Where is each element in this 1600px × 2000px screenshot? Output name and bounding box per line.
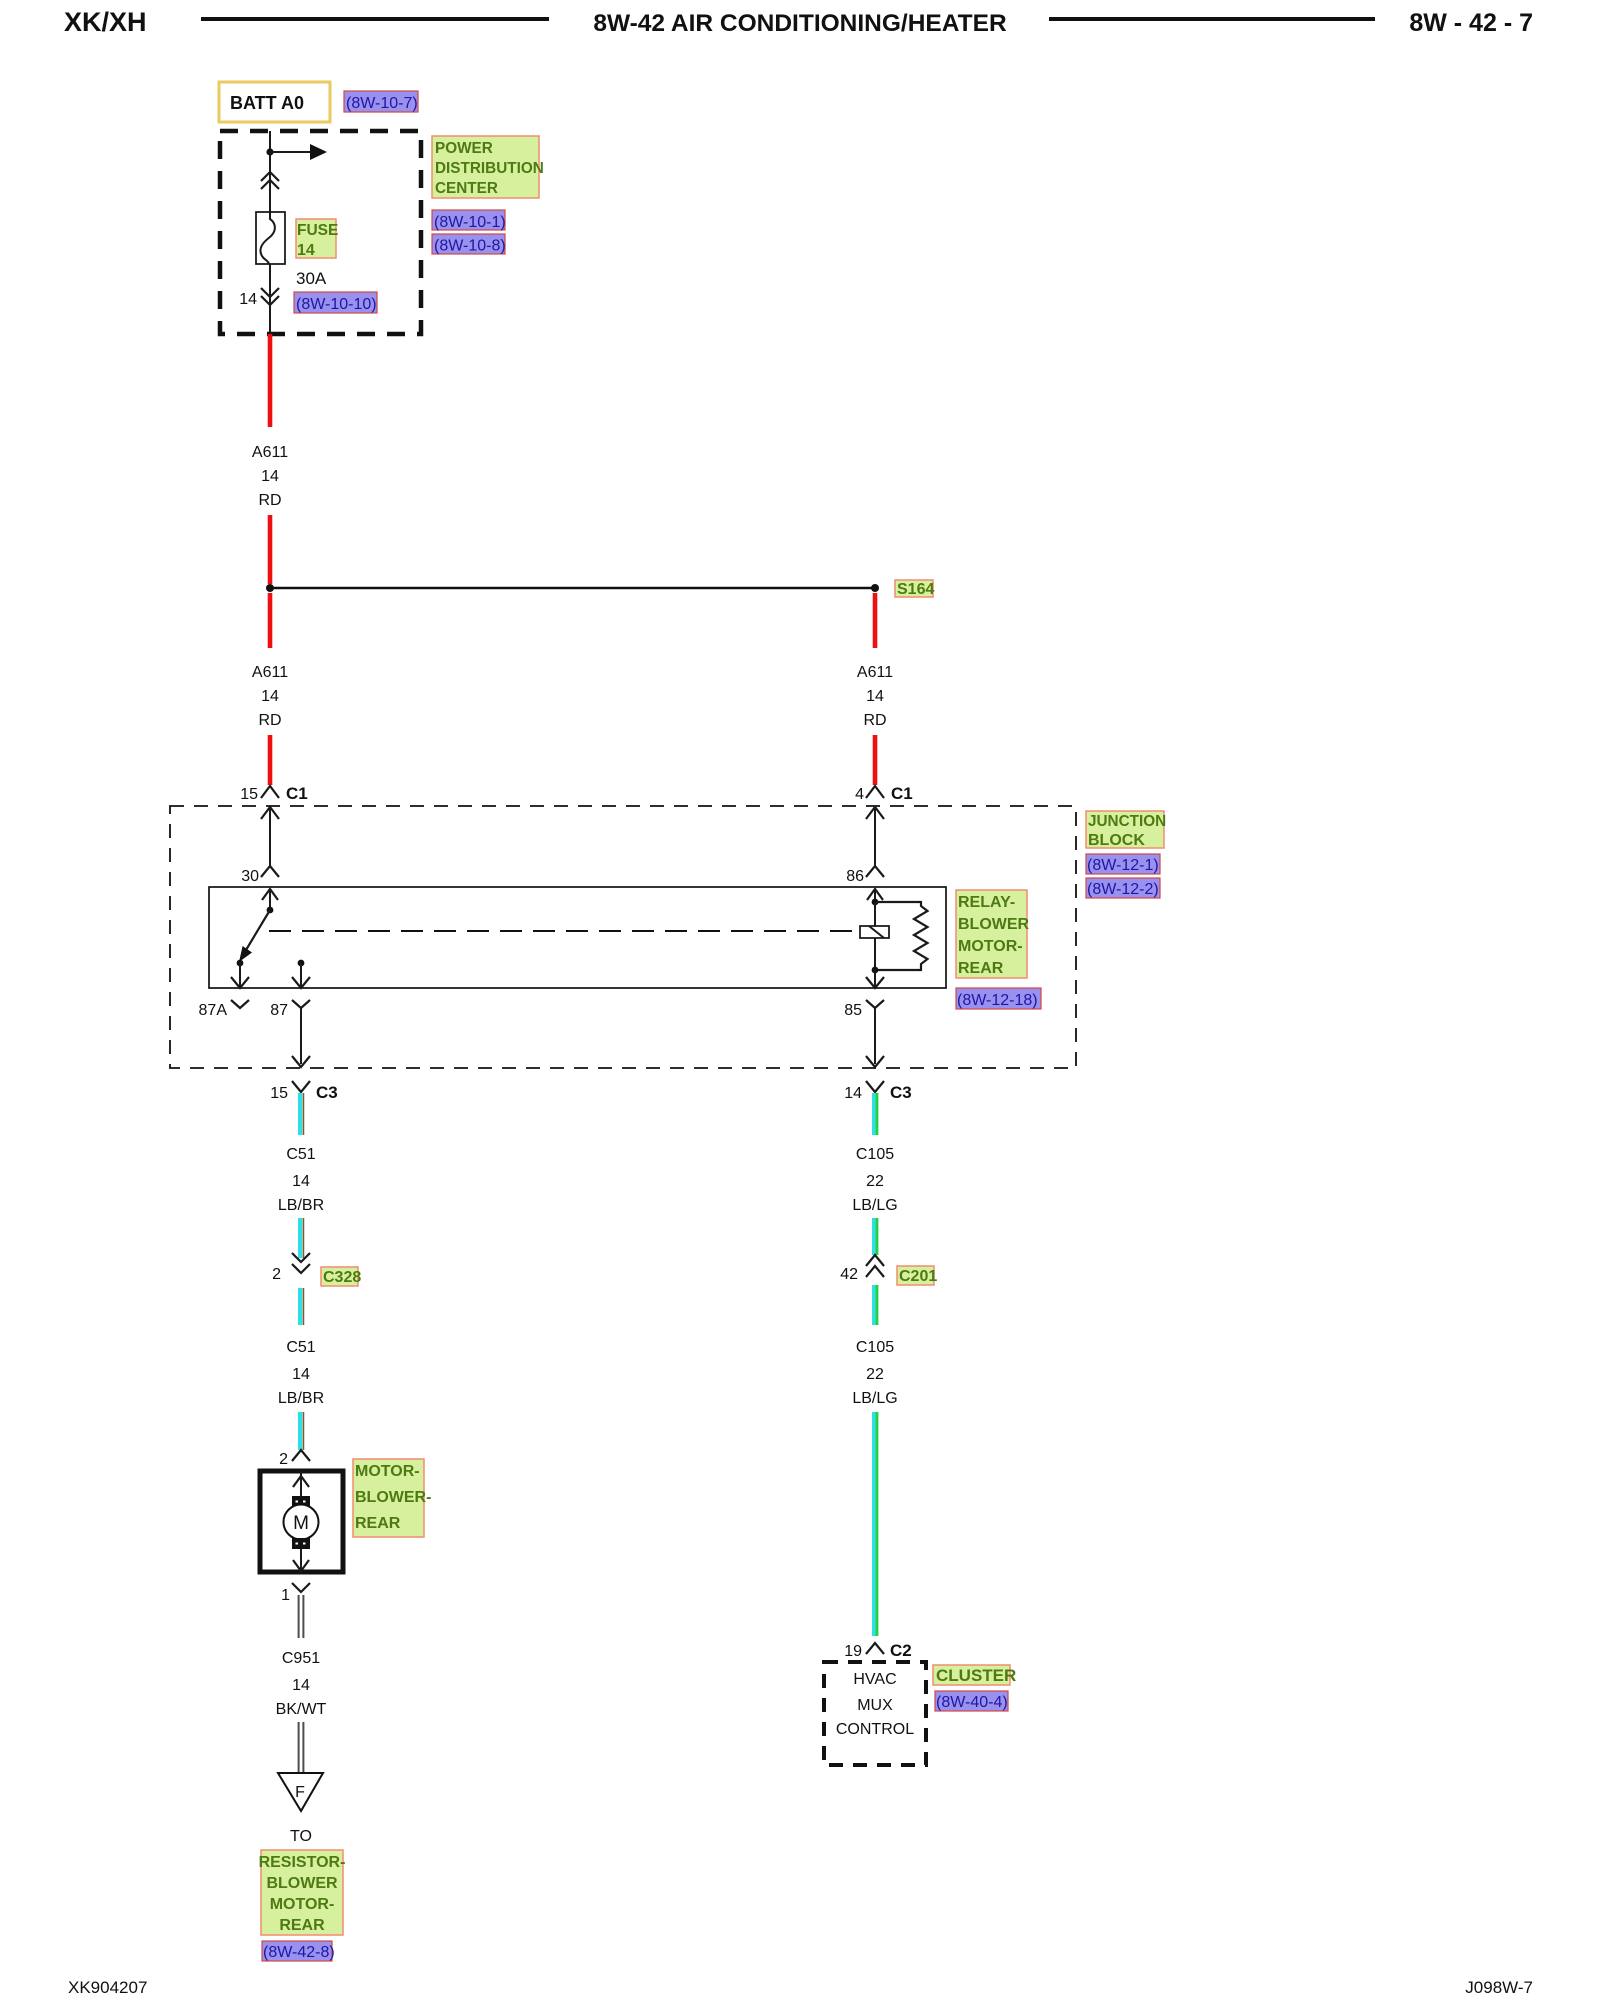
svg-text:FUSE: FUSE	[297, 222, 338, 239]
svg-text:(8W-40-4): (8W-40-4)	[936, 1694, 1008, 1711]
svg-text:C201: C201	[899, 1268, 937, 1285]
svg-text:MOTOR-: MOTOR-	[270, 1896, 335, 1913]
svg-text:14: 14	[261, 468, 279, 485]
svg-text:(8W-10-7): (8W-10-7)	[346, 95, 418, 112]
svg-text:C105: C105	[856, 1146, 894, 1163]
svg-text:MUX: MUX	[857, 1697, 893, 1714]
svg-text:C51: C51	[286, 1339, 315, 1356]
svg-text:MOTOR-: MOTOR-	[958, 938, 1023, 955]
svg-text:1: 1	[281, 1587, 290, 1604]
svg-text:RD: RD	[258, 712, 281, 729]
svg-text:C2: C2	[890, 1641, 912, 1660]
svg-text:(8W-10-1): (8W-10-1)	[434, 214, 506, 231]
svg-text:RESISTOR-: RESISTOR-	[259, 1854, 346, 1871]
svg-text:F: F	[295, 1784, 305, 1801]
svg-text:HVAC: HVAC	[853, 1671, 896, 1688]
svg-text:BLOCK: BLOCK	[1088, 832, 1145, 849]
svg-text:CENTER: CENTER	[435, 180, 498, 197]
svg-text:4: 4	[855, 786, 864, 803]
svg-text:BATT A0: BATT A0	[230, 93, 304, 113]
svg-text:(8W-10-10): (8W-10-10)	[296, 296, 377, 313]
svg-text:85: 85	[844, 1002, 862, 1019]
svg-text:22: 22	[866, 1173, 884, 1190]
svg-text:2: 2	[272, 1266, 281, 1283]
svg-text:14: 14	[239, 291, 257, 308]
svg-text:C951: C951	[282, 1650, 320, 1667]
svg-text:LB/LG: LB/LG	[852, 1390, 897, 1407]
svg-text:C51: C51	[286, 1146, 315, 1163]
svg-text:DISTRIBUTION: DISTRIBUTION	[435, 160, 544, 177]
svg-text:87A: 87A	[199, 1002, 228, 1019]
svg-text:RELAY-: RELAY-	[958, 894, 1015, 911]
svg-text:C3: C3	[890, 1083, 912, 1102]
svg-text:30A: 30A	[296, 269, 327, 288]
svg-text:LB/BR: LB/BR	[278, 1197, 324, 1214]
svg-text:RD: RD	[258, 492, 281, 509]
svg-text:42: 42	[840, 1266, 858, 1283]
svg-text:(8W-10-8): (8W-10-8)	[434, 238, 506, 255]
svg-text:22: 22	[866, 1366, 884, 1383]
svg-text:(8W-12-18): (8W-12-18)	[957, 992, 1038, 1009]
svg-text:A611: A611	[252, 664, 288, 681]
svg-text:14: 14	[844, 1085, 862, 1102]
svg-text:XK904207: XK904207	[68, 1978, 147, 1997]
svg-text:RD: RD	[863, 712, 886, 729]
svg-text:C3: C3	[316, 1083, 338, 1102]
svg-text:15: 15	[240, 786, 258, 803]
svg-text:86: 86	[846, 868, 864, 885]
svg-text:REAR: REAR	[958, 960, 1004, 977]
svg-text:POWER: POWER	[435, 140, 493, 157]
svg-text:LB/BR: LB/BR	[278, 1390, 324, 1407]
svg-text:S164: S164	[897, 581, 934, 598]
svg-text:XK/XH: XK/XH	[64, 7, 147, 37]
svg-text:BLOWER: BLOWER	[266, 1875, 338, 1892]
svg-text:87: 87	[270, 1002, 288, 1019]
svg-text:A611: A611	[252, 444, 288, 461]
svg-text:14: 14	[292, 1173, 310, 1190]
svg-text:BLOWER: BLOWER	[958, 916, 1030, 933]
svg-text:14: 14	[297, 242, 315, 259]
svg-text:8W-42 AIR CONDITIONING/HEATER: 8W-42 AIR CONDITIONING/HEATER	[593, 10, 1007, 37]
svg-text:BK/WT: BK/WT	[276, 1701, 327, 1718]
svg-text:BLOWER-: BLOWER-	[355, 1489, 431, 1506]
svg-text:A611: A611	[857, 664, 893, 681]
svg-text:C105: C105	[856, 1339, 894, 1356]
svg-text:19: 19	[844, 1643, 862, 1660]
svg-text:14: 14	[292, 1677, 310, 1694]
svg-text:14: 14	[292, 1366, 310, 1383]
svg-text:(8W-12-1): (8W-12-1)	[1087, 857, 1159, 874]
svg-text:(8W-12-2): (8W-12-2)	[1087, 881, 1159, 898]
svg-text:MOTOR-: MOTOR-	[355, 1463, 420, 1480]
svg-text:14: 14	[261, 688, 279, 705]
svg-text:(8W-42-8): (8W-42-8)	[263, 1944, 335, 1961]
svg-text:C328: C328	[323, 1269, 361, 1286]
svg-text:CLUSTER: CLUSTER	[936, 1666, 1016, 1685]
svg-text:REAR: REAR	[279, 1917, 325, 1934]
svg-text:15: 15	[270, 1085, 288, 1102]
svg-text:C1: C1	[286, 784, 308, 803]
svg-text:M: M	[293, 1513, 309, 1534]
svg-text:JUNCTION: JUNCTION	[1088, 813, 1166, 830]
svg-text:J098W-7: J098W-7	[1465, 1978, 1533, 1997]
svg-text:LB/LG: LB/LG	[852, 1197, 897, 1214]
svg-text:8W - 42 - 7: 8W - 42 - 7	[1409, 9, 1533, 37]
svg-text:TO: TO	[290, 1828, 312, 1845]
svg-text:30: 30	[241, 868, 259, 885]
svg-text:2: 2	[279, 1451, 288, 1468]
svg-text:REAR: REAR	[355, 1515, 401, 1532]
svg-text:C1: C1	[891, 784, 913, 803]
svg-text:CONTROL: CONTROL	[836, 1721, 914, 1738]
svg-text:14: 14	[866, 688, 884, 705]
